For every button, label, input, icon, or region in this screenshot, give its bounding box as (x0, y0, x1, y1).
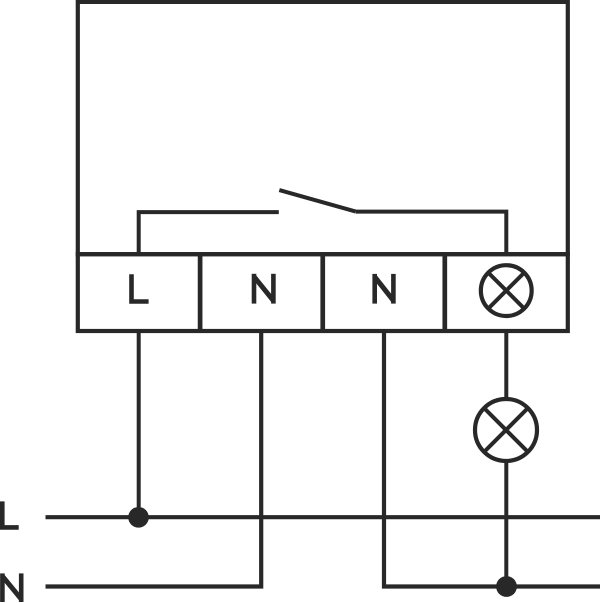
terminal divider 1 (198, 254, 203, 331)
junction dot on mains L (128, 507, 149, 528)
terminal divider 2 (320, 254, 325, 331)
wire terminal L down to mains L (137, 331, 141, 517)
wire terminal N2 down and right to lamp return (384, 331, 600, 587)
switch S1 blade (open) (279, 190, 356, 212)
terminal divider 3 (442, 254, 447, 331)
lamp symbol in output terminal cell (481, 265, 532, 316)
wire from switch to lamp output terminal (356, 212, 507, 255)
terminal label N input (254, 274, 273, 304)
mains L line (46, 515, 600, 519)
junction dot on mains N (496, 576, 517, 597)
mains label L (2, 501, 18, 527)
mains label N (2, 573, 21, 602)
wire from terminal L up to switch contact (139, 212, 279, 254)
wire lamp L1 down to mains N (504, 461, 508, 587)
device enclosure box (78, 2, 568, 254)
terminal strip outline (78, 254, 568, 331)
terminal label N output (375, 274, 394, 304)
wire lamp terminal down to lamp L1 (504, 331, 508, 399)
lamp L1 (475, 399, 537, 461)
mains N feed wire up to terminal N (46, 331, 262, 587)
terminal label L (132, 274, 149, 301)
